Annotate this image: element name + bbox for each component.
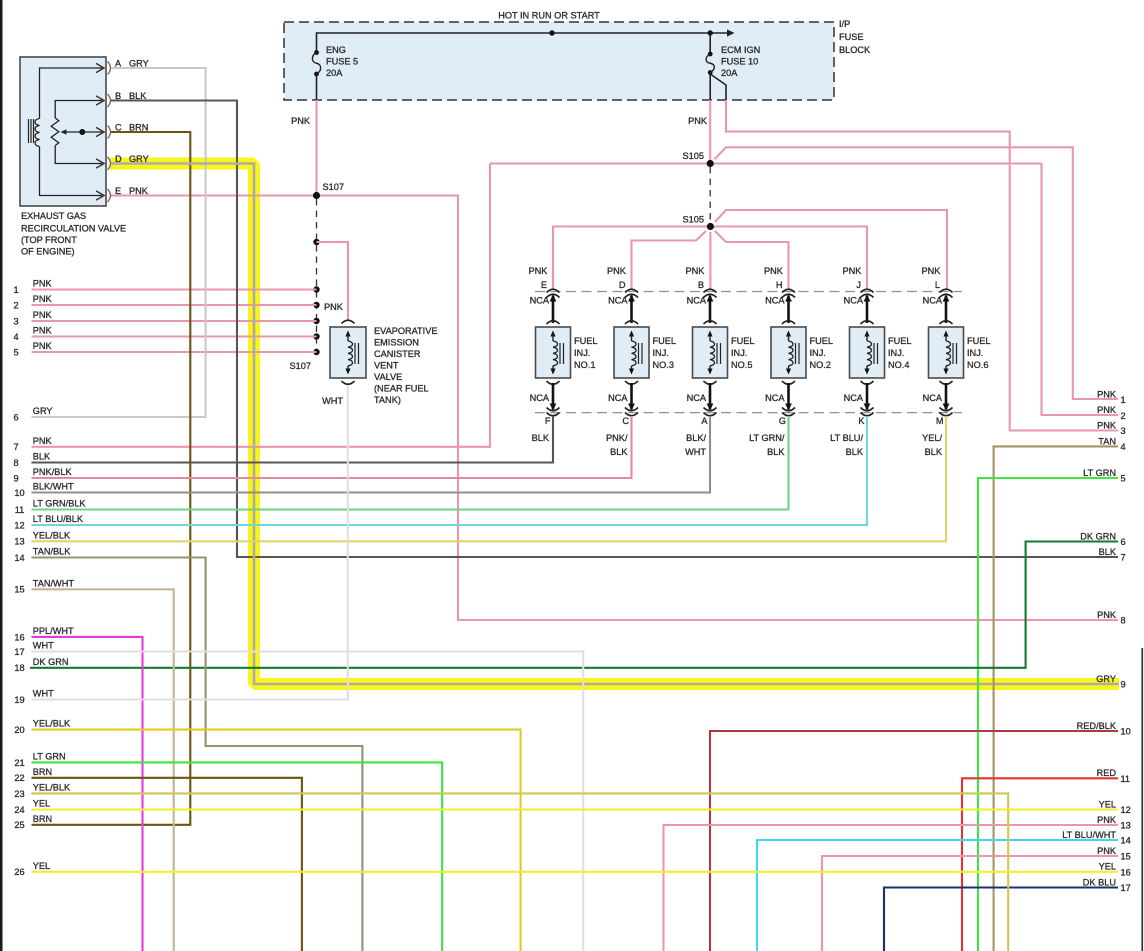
wire LT GRN: pin 21 to bottom <box>32 762 443 951</box>
svg-text:PNK/BLK: PNK/BLK <box>33 467 73 477</box>
wire PNK/BLK: injector C to pin <box>32 416 632 478</box>
wire BRN: EGR pin C to pin 25 <box>32 132 191 825</box>
svg-text:PNK: PNK <box>33 294 53 304</box>
wire YEL: pin 26 to right 16 <box>32 871 1119 873</box>
wire PNK: chain to EVAP valve <box>317 242 349 320</box>
svg-text:3: 3 <box>1121 426 1126 436</box>
fuel injector NO.2 (col H/G) <box>782 289 795 292</box>
svg-text:4: 4 <box>13 332 18 342</box>
svg-text:PNK: PNK <box>1097 846 1117 856</box>
svg-text:7: 7 <box>1121 553 1126 563</box>
wire PNK pin5 <box>32 351 317 353</box>
svg-text:INJ.: INJ. <box>574 348 590 358</box>
svg-text:YEL/BLK: YEL/BLK <box>33 782 71 792</box>
svg-text:E: E <box>541 280 547 290</box>
fuse F5 ENG FUSE 5 20A <box>314 50 319 55</box>
wire LT BLU/WHT: right 14 to bottom <box>757 840 1118 951</box>
svg-text:F: F <box>545 416 551 426</box>
svg-text:DK GRN: DK GRN <box>33 657 69 667</box>
svg-text:11: 11 <box>1121 774 1131 784</box>
svg-text:K: K <box>858 416 865 426</box>
wire RED/BLK: right 10 to bottom <box>710 731 1118 951</box>
svg-text:FUEL: FUEL <box>574 336 598 346</box>
node S105 upper <box>707 160 714 167</box>
svg-text:18: 18 <box>14 663 24 673</box>
svg-text:NCA: NCA <box>687 393 707 403</box>
svg-text:10: 10 <box>1121 727 1131 737</box>
wire: bus to ECM fuse <box>709 33 711 54</box>
svg-text:21: 21 <box>14 758 24 768</box>
svg-text:H: H <box>776 280 783 290</box>
svg-text:INJ.: INJ. <box>731 348 747 358</box>
svg-text:GRY: GRY <box>33 406 53 416</box>
wire PNK: right 15 to bottom <box>822 856 1118 951</box>
svg-text:FUEL: FUEL <box>731 336 755 346</box>
svg-text:FUEL: FUEL <box>967 336 991 346</box>
EVAP canister vent valve <box>342 320 355 323</box>
svg-text:25: 25 <box>14 820 24 830</box>
svg-text:LT GRN/: LT GRN/ <box>749 433 785 443</box>
svg-text:PNK: PNK <box>529 266 549 276</box>
wire LT BLU/BLK: injector K to pin <box>32 416 868 525</box>
svg-text:10: 10 <box>14 488 24 498</box>
wire YEL/BLK: injector M to pin <box>32 416 947 541</box>
svg-text:2: 2 <box>13 300 18 310</box>
svg-text:ENG: ENG <box>326 45 346 55</box>
fuel injector NO.6 (col L/M) <box>940 289 953 292</box>
svg-text:RECIRCULATION VALVE: RECIRCULATION VALVE <box>21 224 126 234</box>
wire LT GRN: right 5 to bottom <box>978 478 1118 951</box>
svg-text:NCA: NCA <box>844 393 864 403</box>
svg-text:NCA: NCA <box>530 393 550 403</box>
svg-text:VENT: VENT <box>374 361 399 371</box>
node: chain dot EVAP branch <box>313 239 319 245</box>
highlight: yellow marked circuit <box>110 164 1119 685</box>
I/P fuse block (dashed box) <box>284 22 834 100</box>
svg-text:J: J <box>856 280 861 290</box>
svg-text:PNK: PNK <box>1097 815 1117 825</box>
wire: ECM fuse branch jog <box>710 74 726 100</box>
wire PNK: S105 diagonal to right PNK 1 <box>715 147 1119 399</box>
wire YEL/BLK: pin 20 to bottom <box>32 730 521 951</box>
svg-text:NCA: NCA <box>608 295 628 305</box>
svg-text:NCA: NCA <box>923 295 943 305</box>
svg-text:EMISSION: EMISSION <box>374 338 419 348</box>
wire PPL/WHT: pin 16 to bottom <box>32 637 143 951</box>
svg-text:NO.3: NO.3 <box>653 360 674 370</box>
svg-text:GRY: GRY <box>1096 674 1116 684</box>
svg-text:PNK: PNK <box>688 116 708 126</box>
wire TAN/WHT: pin 15 to bottom <box>32 589 174 951</box>
wire PNK: right 13 to bottom <box>664 825 1119 951</box>
svg-text:15: 15 <box>14 585 24 595</box>
node S105 lower <box>707 223 714 230</box>
wire RED: right 11 to bottom <box>962 778 1118 951</box>
svg-text:BLK: BLK <box>767 447 785 457</box>
wire: S107 dashed chain <box>316 199 318 352</box>
svg-text:INJ.: INJ. <box>888 348 904 358</box>
svg-text:B: B <box>698 280 704 290</box>
wire PNK: ENG fuse to S107 <box>315 100 317 196</box>
wire DK BLU: right 17 to bottom <box>884 888 1118 951</box>
svg-text:WHT: WHT <box>685 447 706 457</box>
svg-text:PNK: PNK <box>33 310 53 320</box>
svg-text:PNK: PNK <box>1097 420 1117 430</box>
svg-text:VALVE: VALVE <box>374 372 402 382</box>
node S107 <box>313 192 320 199</box>
svg-text:EXHAUST GAS: EXHAUST GAS <box>21 211 86 221</box>
svg-text:NO.4: NO.4 <box>888 360 909 370</box>
wire PNK pin4 <box>32 335 317 337</box>
wire LT GRN/BLK: injector G to pin <box>32 416 789 510</box>
wire DK GRN: pin 18 to right 6 <box>30 542 1118 668</box>
svg-text:LT BLU/BLK: LT BLU/BLK <box>33 514 84 524</box>
svg-text:3: 3 <box>13 316 18 326</box>
node: bus feed dot <box>549 30 554 35</box>
page left edge artifact <box>0 0 3 951</box>
svg-text:NCA: NCA <box>765 295 785 305</box>
svg-text:20: 20 <box>14 725 24 735</box>
svg-text:12: 12 <box>14 520 24 530</box>
svg-text:NCA: NCA <box>765 393 785 403</box>
svg-text:S107: S107 <box>323 182 344 192</box>
node: chain dot row2 <box>313 302 319 308</box>
svg-text:YEL: YEL <box>1099 799 1116 809</box>
svg-text:PNK: PNK <box>33 341 53 351</box>
wire: ECM fuse to box edge <box>709 73 711 101</box>
svg-text:19: 19 <box>14 695 24 705</box>
svg-text:BLK: BLK <box>33 452 51 462</box>
svg-text:TAN/BLK: TAN/BLK <box>33 547 71 557</box>
svg-text:PNK: PNK <box>607 266 627 276</box>
svg-text:NCA: NCA <box>608 393 628 403</box>
svg-text:14: 14 <box>14 553 24 563</box>
svg-text:YEL/: YEL/ <box>922 433 942 443</box>
svg-text:7: 7 <box>13 442 18 452</box>
wire WHT: pin 17 to bottom <box>32 652 584 951</box>
svg-text:PNK: PNK <box>843 266 863 276</box>
svg-text:WHT: WHT <box>322 396 343 406</box>
svg-text:8: 8 <box>1121 616 1126 626</box>
svg-text:BRN: BRN <box>33 814 52 824</box>
wire: ENG fuse to box edge <box>316 74 318 100</box>
svg-text:LT BLU/WHT: LT BLU/WHT <box>1062 830 1116 840</box>
wire PNK pin2 <box>32 304 317 306</box>
svg-text:14: 14 <box>1121 836 1131 846</box>
svg-text:S107: S107 <box>290 361 311 371</box>
svg-text:LT GRN: LT GRN <box>33 751 66 761</box>
wire GRY: EGR pin A to pin 6 <box>32 68 206 417</box>
wire WHT: pin 19 to EVAP valve <box>32 385 348 700</box>
svg-text:1: 1 <box>1121 395 1126 405</box>
svg-text:PNK: PNK <box>129 186 149 196</box>
wire PNK: S105 to left pin7 and right PNK 2 <box>490 162 1042 164</box>
node: chain dot row5 <box>313 349 319 355</box>
fuel injector NO.3 (col D/C) <box>625 289 638 292</box>
svg-text:23: 23 <box>14 789 24 799</box>
svg-text:LT GRN: LT GRN <box>1083 468 1116 478</box>
svg-text:17: 17 <box>14 647 24 657</box>
node: chain dot row3 <box>313 318 319 324</box>
svg-text:DK BLU: DK BLU <box>1083 877 1116 887</box>
svg-text:M: M <box>936 416 944 426</box>
wire: S105 dashed link <box>709 167 711 223</box>
wire PNK pin3 <box>32 320 317 322</box>
svg-text:BLK: BLK <box>532 433 550 443</box>
svg-text:PNK: PNK <box>33 326 53 336</box>
fuse F10 ECM IGN FUSE 10 20A <box>708 52 713 57</box>
svg-text:PNK: PNK <box>33 279 53 289</box>
svg-text:NCA: NCA <box>923 393 943 403</box>
svg-text:PNK: PNK <box>764 266 784 276</box>
svg-text:C: C <box>622 416 629 426</box>
svg-text:LT BLU/: LT BLU/ <box>830 433 863 443</box>
svg-text:L: L <box>935 280 940 290</box>
svg-text:FUSE 5: FUSE 5 <box>326 57 358 67</box>
fuel injector NO.4 (col J/K) <box>861 289 874 292</box>
wire PNK: EGR pin E to S107 to right PNK 8 <box>111 194 317 196</box>
svg-text:FUEL: FUEL <box>653 336 677 346</box>
svg-text:5: 5 <box>1121 474 1126 484</box>
svg-text:S105: S105 <box>683 151 704 161</box>
svg-text:A: A <box>701 416 708 426</box>
svg-text:BRN: BRN <box>33 767 52 777</box>
svg-text:DK GRN: DK GRN <box>1080 531 1116 541</box>
svg-text:PNK: PNK <box>1097 405 1117 415</box>
wire YEL/BLK: pin 23 to bottom <box>32 793 1009 951</box>
svg-text:16: 16 <box>1121 867 1131 877</box>
svg-text:NCA: NCA <box>844 295 864 305</box>
svg-text:BLK/: BLK/ <box>686 433 706 443</box>
svg-text:INJ.: INJ. <box>653 348 669 358</box>
injector connector dashed line (top) <box>535 291 962 293</box>
svg-text:20A: 20A <box>326 68 343 78</box>
wire PNK: S105 to injector E <box>553 227 710 290</box>
svg-text:PNK: PNK <box>1097 390 1117 400</box>
svg-text:FUEL: FUEL <box>888 336 912 346</box>
wire TAN/BLK: pin 14 to bottom <box>32 558 363 951</box>
svg-text:NCA: NCA <box>530 295 550 305</box>
svg-text:OF ENGINE): OF ENGINE) <box>21 247 75 257</box>
svg-text:9: 9 <box>13 473 18 483</box>
svg-text:FUSE: FUSE <box>839 32 864 42</box>
svg-text:NO.1: NO.1 <box>574 360 595 370</box>
svg-text:INJ.: INJ. <box>967 348 983 358</box>
svg-text:E: E <box>115 186 121 196</box>
node: chain dot row1 <box>313 286 319 292</box>
svg-text:NO.6: NO.6 <box>967 360 988 370</box>
wire YEL: pin 24 to right 12 <box>32 808 1119 810</box>
svg-text:PNK: PNK <box>922 266 942 276</box>
svg-text:ECM IGN: ECM IGN <box>721 45 760 55</box>
svg-text:BLK/WHT: BLK/WHT <box>33 482 74 492</box>
wire PNK: S105 to injector D <box>632 231 706 289</box>
svg-text:YEL: YEL <box>33 861 50 871</box>
fuel injector NO.5 (col B/A) <box>704 289 717 292</box>
page right edge artifact <box>1141 648 1143 951</box>
svg-text:RED/BLK: RED/BLK <box>1077 721 1117 731</box>
svg-text:2: 2 <box>1121 411 1126 421</box>
svg-text:TAN/WHT: TAN/WHT <box>33 578 75 588</box>
node: bus dot at ECM fuse <box>708 30 713 35</box>
wire BRN: pin 22 to bottom <box>32 778 302 951</box>
svg-text:EVAPORATIVE: EVAPORATIVE <box>374 326 437 336</box>
svg-text:NO.2: NO.2 <box>810 360 831 370</box>
svg-text:6: 6 <box>1121 537 1126 547</box>
injector connector dashed line (bottom) <box>535 412 962 414</box>
svg-text:HOT IN RUN OR START: HOT IN RUN OR START <box>498 11 600 21</box>
svg-text:13: 13 <box>1121 821 1131 831</box>
EGR valve (solenoid + position sensor) <box>20 57 106 206</box>
svg-text:11: 11 <box>15 505 25 515</box>
svg-text:24: 24 <box>14 805 24 815</box>
svg-text:RED: RED <box>1097 768 1117 778</box>
svg-text:17: 17 <box>1121 883 1131 893</box>
svg-text:FUEL: FUEL <box>810 336 834 346</box>
svg-text:S105: S105 <box>683 215 704 225</box>
wire GRY: EGR pin D to right GRY 9 (highlighted) <box>111 164 1119 685</box>
svg-text:(NEAR FUEL: (NEAR FUEL <box>374 384 429 394</box>
svg-text:WHT: WHT <box>33 689 54 699</box>
svg-text:5: 5 <box>13 347 18 357</box>
svg-text:(TOP FRONT: (TOP FRONT <box>21 235 77 245</box>
svg-text:I/P: I/P <box>839 19 850 29</box>
svg-text:WHT: WHT <box>33 641 54 651</box>
svg-text:15: 15 <box>1121 852 1131 862</box>
wire PNK: S105 to injector H <box>715 231 789 289</box>
svg-text:INJ.: INJ. <box>810 348 826 358</box>
svg-text:YEL: YEL <box>1099 862 1116 872</box>
svg-text:26: 26 <box>14 867 24 877</box>
svg-text:1: 1 <box>13 285 18 295</box>
svg-text:BLK: BLK <box>846 447 864 457</box>
svg-text:YEL/BLK: YEL/BLK <box>33 530 71 540</box>
svg-text:PNK: PNK <box>686 266 706 276</box>
svg-text:PNK: PNK <box>291 116 311 126</box>
svg-text:CANISTER: CANISTER <box>374 349 421 359</box>
wire BLK: EGR pin B to right BLK 7 <box>111 101 1118 558</box>
svg-text:4: 4 <box>1121 442 1126 452</box>
wire BLK: injector F to pin <box>32 416 554 463</box>
svg-text:TAN: TAN <box>1098 436 1116 446</box>
svg-text:13: 13 <box>14 537 24 547</box>
svg-text:LT GRN/BLK: LT GRN/BLK <box>33 499 87 509</box>
svg-text:FUSE 10: FUSE 10 <box>721 57 758 67</box>
node: chain dot row4 <box>313 333 319 339</box>
svg-text:NCA: NCA <box>687 295 707 305</box>
wire TAN: right 4 to bottom <box>994 446 1118 951</box>
svg-text:PNK: PNK <box>33 436 53 446</box>
svg-text:BLK: BLK <box>610 447 628 457</box>
svg-text:PNK: PNK <box>1097 610 1117 620</box>
svg-text:PPL/WHT: PPL/WHT <box>33 626 74 636</box>
svg-text:BLK: BLK <box>925 447 943 457</box>
wire PNK: S105 to injector L <box>715 210 947 289</box>
svg-text:16: 16 <box>14 632 24 642</box>
svg-text:D: D <box>619 280 626 290</box>
svg-text:9: 9 <box>1121 680 1126 690</box>
svg-text:BLK: BLK <box>1099 547 1117 557</box>
wire BLK/WHT: injector A to pin <box>32 416 711 493</box>
wire PNK pin1 <box>32 288 317 290</box>
svg-text:PNK/: PNK/ <box>606 433 628 443</box>
EGR connector arcs <box>108 62 111 75</box>
wire PNK: fuse jog branch to right PNK 3 <box>726 100 1118 431</box>
svg-text:8: 8 <box>13 458 18 468</box>
svg-text:TANK): TANK) <box>374 395 401 405</box>
svg-text:YEL/BLK: YEL/BLK <box>33 719 71 729</box>
svg-text:12: 12 <box>1121 805 1131 815</box>
wire PNK: S105 to injector B <box>709 232 711 289</box>
svg-text:20A: 20A <box>721 68 738 78</box>
svg-text:6: 6 <box>13 412 18 422</box>
wire PNK: S105 to injector J <box>710 227 867 290</box>
wire PNK: ECM fuse to S105 <box>709 100 711 164</box>
svg-text:22: 22 <box>14 773 24 783</box>
svg-text:G: G <box>779 416 786 426</box>
svg-text:YEL: YEL <box>33 799 50 809</box>
svg-text:NO.5: NO.5 <box>731 360 752 370</box>
wire: fuse block bus <box>317 33 729 52</box>
svg-text:PNK: PNK <box>324 302 344 312</box>
fuel injector NO.1 (col E/F) <box>547 289 560 292</box>
svg-text:BLOCK: BLOCK <box>839 45 871 55</box>
